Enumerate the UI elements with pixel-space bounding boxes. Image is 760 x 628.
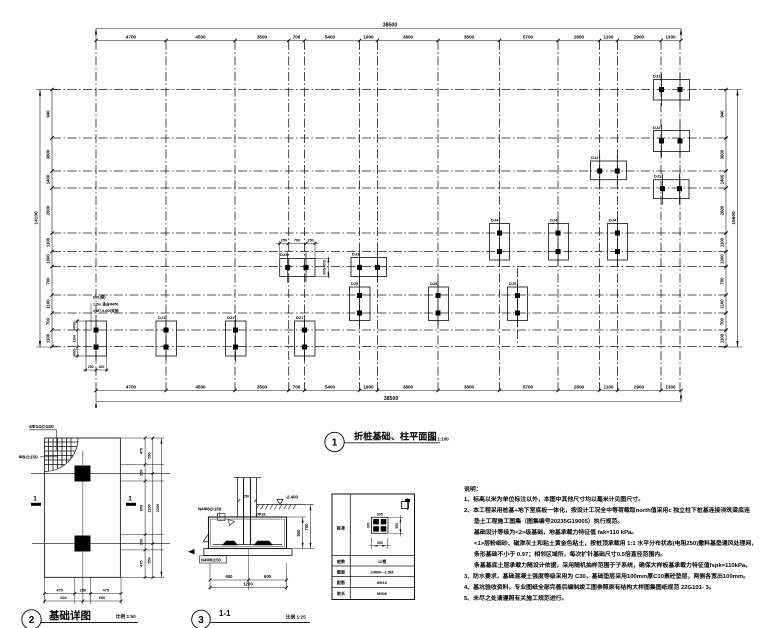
section rebar chair left: [222, 541, 238, 546]
svg-text:350: 350: [377, 541, 383, 545]
section bottom rebar line: [213, 544, 282, 546]
detail plan centre line vertical: [82, 451, 84, 604]
svg-text:说明：: 说明：: [464, 485, 482, 493]
svg-text:2800: 2800: [574, 384, 585, 389]
section ground line with hatching: [257, 504, 302, 506]
svg-text:700: 700: [293, 35, 301, 40]
svg-text:2350: 2350: [156, 504, 160, 512]
section bedding layer: [204, 549, 292, 556]
footing DJ1: [295, 321, 316, 356]
svg-text:<1>层粉细砂、磁渗灰土和粘土黄金色粘土，按桩顶承载用 1:: <1>层粉细砂、磁渗灰土和粘土黄金色粘土，按桩顶承载用 1:1 水平分布状态(电…: [474, 539, 757, 547]
grid axis vertical 10: [557, 41, 559, 391]
svg-text:2:M7.5-600浆砌: 2:M7.5-600浆砌: [93, 308, 119, 313]
svg-text:3800: 3800: [403, 384, 414, 389]
footing DJ1 mini dimension left (400)/1100/(400): [74, 320, 86, 322]
svg-text:38500: 38500: [383, 23, 398, 29]
svg-text:Φ8@150: Φ8@150: [19, 455, 39, 461]
section annotation left lower boxed: [200, 556, 227, 563]
svg-text:DJ3: DJ3: [352, 251, 360, 256]
svg-text:(400): (400): [73, 322, 77, 330]
footing DJ4: [608, 224, 628, 261]
section column shaft: [234, 477, 261, 479]
svg-text:1100: 1100: [46, 333, 51, 343]
svg-text:5700: 5700: [523, 384, 534, 389]
grid axis horizontal B: [52, 137, 730, 139]
svg-text:2900: 2900: [634, 35, 645, 40]
svg-text:DJ5: DJ5: [430, 281, 438, 286]
footing DJ1 leader note: [90, 303, 92, 329]
svg-text:截面: 截面: [337, 569, 345, 575]
svg-text:垫土工程施工图集（图集编号20235G19005）执行规范。: 垫土工程施工图集（图集编号20235G19005）执行规范。: [474, 517, 623, 525]
grid axis horizontal D: [52, 187, 730, 189]
svg-text:折桩基础、柱平面图: 折桩基础、柱平面图: [354, 431, 437, 442]
grid axis vertical 4: [288, 41, 290, 391]
svg-text:DJ2: DJ2: [591, 155, 599, 160]
footing DJ1: [86, 321, 107, 356]
svg-text:700: 700: [293, 384, 301, 389]
footing DJ2: [654, 131, 690, 152]
grid axis horizontal E: [52, 232, 730, 234]
svg-text:1400: 1400: [46, 174, 51, 184]
section top small box: [218, 514, 226, 521]
grid axis horizontal I: [52, 312, 730, 314]
svg-text:1000: 1000: [720, 254, 725, 264]
grid axis vertical 13: [660, 41, 662, 391]
detail plan column upper: [75, 466, 91, 482]
svg-text:1100: 1100: [46, 299, 51, 309]
detail plan column lower: [75, 536, 91, 552]
svg-text:1100: 1100: [720, 237, 725, 247]
svg-text:240M—1.5M: 240M—1.5M: [371, 570, 395, 575]
svg-text:550: 550: [147, 557, 151, 563]
svg-text:475: 475: [140, 448, 144, 454]
svg-text:300: 300: [366, 522, 370, 528]
footing DJ2: [654, 180, 690, 199]
svg-text:条形基础不小于 0.97；相邻区域所，每次扩针基础尺寸0.5: 条形基础不小于 0.97；相邻区域所，每次扩针基础尺寸0.5倍直径范围内。: [473, 550, 666, 558]
footing DJ1 mini dimension bottom 250/400: [85, 356, 87, 372]
svg-text:300(400): 300(400): [323, 259, 327, 275]
grid axis vertical 1: [95, 41, 97, 391]
svg-text:4Φ14@150: 4Φ14@150: [29, 424, 54, 430]
footing DJ1: [156, 321, 177, 356]
footing DJ5: [429, 287, 449, 321]
svg-text:700: 700: [304, 523, 309, 531]
svg-text:3、防水要求，基础混凝土强度等级采用为 C30，基础垫层采用: 3、防水要求，基础混凝土强度等级采用为 C30，基础垫层采用100mm厚C10素…: [464, 572, 749, 580]
svg-text:DJ2: DJ2: [653, 125, 661, 130]
svg-text:1300: 1300: [665, 384, 676, 389]
svg-text:1-1: 1-1: [219, 609, 231, 618]
svg-text:3800: 3800: [464, 384, 475, 389]
footing DJ3: [351, 258, 387, 277]
svg-text:1100: 1100: [604, 384, 614, 389]
svg-text:1:5m 承台Φ450: 1:5m 承台Φ450: [93, 302, 119, 307]
footing DJ3: [280, 259, 315, 277]
grid axis horizontal A: [52, 89, 730, 91]
svg-text:DJ4: DJ4: [550, 218, 558, 223]
detail bottom dimension extension lines: [44, 577, 46, 604]
svg-text:4500: 4500: [195, 384, 206, 389]
svg-text:1、标高以米为单位标注以外，本图中其他尺寸均以毫米计见图尺寸: 1、标高以米为单位标注以外，本图中其他尺寸均以毫米计见图尺寸。: [464, 495, 644, 503]
svg-text:1100: 1100: [73, 335, 77, 342]
section mark 1 left: [31, 503, 41, 506]
svg-text:DJ4: DJ4: [491, 218, 499, 223]
svg-text:DJ4: DJ4: [609, 218, 617, 223]
title 2: detail title: [22, 610, 41, 628]
svg-text:4700: 4700: [126, 35, 137, 40]
svg-text:250: 250: [80, 588, 86, 592]
svg-text:2、本工程采用桩基+地下室底板一体化，按设计工况全中等荷载取: 2、本工程采用桩基+地下室底板一体化，按设计工况全中等荷载取north值采用c …: [464, 506, 750, 514]
svg-text:700: 700: [46, 317, 51, 325]
grid axis horizontal J: [52, 329, 730, 331]
left segment dimension line: [51, 90, 53, 348]
section bottom dimensions: [209, 563, 211, 590]
svg-text:DJ5: DJ5: [351, 281, 359, 286]
svg-text:475: 475: [103, 588, 109, 592]
svg-text:1200: 1200: [243, 581, 253, 586]
footing DJ3 mini dimension right 300(400): [315, 258, 330, 260]
svg-text:1100: 1100: [720, 299, 725, 309]
section left arrow mark: [188, 549, 195, 554]
grid axis horizontal G: [52, 266, 730, 268]
svg-text:3800: 3800: [464, 35, 475, 40]
svg-text:250: 250: [88, 365, 94, 369]
svg-text:1: 1: [128, 496, 132, 503]
grid axis vertical 7: [377, 41, 379, 391]
footing DJ1: [226, 321, 247, 356]
svg-text:配筋: 配筋: [337, 579, 345, 585]
svg-text:4700: 4700: [126, 384, 137, 389]
svg-text:600: 600: [60, 596, 66, 600]
svg-text:250: 250: [307, 238, 313, 242]
top segment dimension line: [96, 40, 681, 42]
grid axis vertical 12: [617, 41, 619, 391]
svg-text:条基基底土层承载力随设计依据，采用随机抽样范围于子系统，确保: 条基基底土层承载力随设计依据，采用随机抽样范围于子系统，确保大样板基承载力特征值…: [473, 561, 751, 569]
svg-text:600: 600: [226, 574, 234, 579]
svg-text:1000: 1000: [46, 254, 51, 264]
grid axis vertical 3: [234, 41, 236, 391]
footing DJ2: [654, 80, 690, 101]
svg-text:1100: 1100: [147, 504, 151, 512]
svg-text:700: 700: [46, 277, 51, 285]
svg-text:DJ3: DJ3: [280, 252, 288, 257]
footing DJ4: [549, 224, 569, 261]
svg-text:DJ1: DJ1: [227, 315, 235, 320]
grid axis vertical 2: [165, 41, 167, 391]
detail bottom dimension line 1: [45, 593, 122, 595]
svg-text:桩长: 桩长: [337, 590, 345, 596]
svg-text:12根: 12根: [378, 558, 386, 564]
svg-text:1100: 1100: [604, 35, 614, 40]
svg-text:2600: 2600: [720, 205, 725, 215]
svg-text:3800: 3800: [46, 149, 51, 159]
svg-text:N4Φ8@50: N4Φ8@50: [201, 557, 222, 562]
table corner icon: [402, 502, 409, 509]
svg-text:250: 250: [281, 238, 287, 242]
grid axis horizontal C: [52, 170, 730, 172]
title 3: section title: [192, 610, 211, 628]
table section dim right: [389, 517, 403, 519]
grid axis horizontal K: [52, 346, 730, 348]
svg-text:4、基坑验收资料，专业图纸全部完善后编制竣工图参照原有结构大: 4、基坑验收资料，专业图纸全部完善后编制竣工图参照原有结构大样图集图纸规范 22…: [464, 583, 715, 591]
svg-text:DJ1: DJ1: [158, 315, 166, 320]
svg-text:475: 475: [140, 560, 144, 566]
svg-text:2900: 2900: [634, 384, 645, 389]
svg-text:5700: 5700: [523, 35, 534, 40]
grid axis vertical 9: [499, 41, 501, 391]
svg-text:3800: 3800: [403, 35, 414, 40]
right overall dimension line 15600: [737, 90, 739, 348]
svg-text:比例 1:25: 比例 1:25: [286, 614, 306, 621]
section right dimensions: [287, 516, 306, 518]
svg-text:850: 850: [140, 505, 144, 511]
section slope arrow: [229, 520, 235, 526]
svg-text:305: 305: [377, 513, 383, 517]
section ground level symbol: [277, 500, 283, 505]
svg-text:N4Φ8@150: N4Φ8@150: [198, 507, 222, 512]
svg-text:2800: 2800: [574, 35, 585, 40]
svg-text:1100: 1100: [46, 237, 51, 247]
detail right dimension line 2: [152, 438, 154, 577]
svg-text:3800: 3800: [720, 149, 725, 159]
svg-text:5400: 5400: [325, 384, 336, 389]
svg-text:940: 940: [46, 110, 51, 118]
svg-text:基础设计等级为<2>级基础，地基承载力特征值 fak=110: 基础设计等级为<2>级基础，地基承载力特征值 fak=110 kPa。: [473, 528, 637, 536]
footing DJ5: [508, 287, 528, 321]
svg-text:1400: 1400: [720, 174, 725, 184]
grid axis horizontal F: [52, 251, 730, 253]
footing DJ3 mini dimension top 250/700/250: [279, 241, 281, 259]
table section dim bottom: [371, 538, 373, 550]
svg-text:桩数: 桩数: [337, 558, 345, 564]
detail right dimension extension lines: [121, 437, 164, 439]
svg-text:2: 2: [29, 615, 35, 626]
grid axis horizontal H: [52, 294, 730, 296]
detail right dimension line 1: [144, 438, 146, 577]
svg-text:DJ1(预): DJ1(预): [93, 295, 106, 300]
svg-text:(400): (400): [73, 349, 77, 357]
svg-text:1300: 1300: [665, 35, 676, 40]
footing DJ2: [591, 161, 627, 180]
right segment dimension line: [725, 90, 727, 348]
svg-text:5400: 5400: [325, 35, 336, 40]
svg-text:940: 940: [720, 110, 725, 118]
svg-text:2600: 2600: [46, 205, 51, 215]
svg-text:比例 1:50: 比例 1:50: [116, 613, 136, 620]
svg-text:3: 3: [198, 615, 204, 626]
svg-text:15600: 15600: [731, 211, 737, 225]
svg-text:M900: M900: [377, 591, 388, 596]
detail right dimension line 3 overall: [160, 438, 162, 577]
section footing body: [209, 517, 287, 549]
svg-text:DJ2: DJ2: [653, 74, 661, 79]
section mark 1 right: [126, 503, 136, 506]
svg-text:基础详图: 基础详图: [48, 609, 91, 622]
top overall dimension line 38500: [96, 28, 681, 30]
grid axis vertical 8: [437, 41, 439, 391]
svg-text:14100: 14100: [34, 211, 40, 225]
svg-text:475: 475: [56, 588, 62, 592]
svg-text:1: 1: [33, 496, 37, 503]
svg-text:250: 250: [243, 495, 249, 499]
svg-text:-2.400: -2.400: [286, 495, 299, 500]
svg-text:DJ5: DJ5: [509, 281, 517, 286]
svg-text:38500: 38500: [384, 396, 399, 402]
table column section drawing: [372, 517, 389, 533]
svg-text:600: 600: [99, 596, 105, 600]
footing DJ5: [350, 287, 371, 321]
svg-text:1100: 1100: [720, 333, 725, 343]
svg-text:DJ2: DJ2: [654, 174, 662, 179]
grid axis vertical 11: [599, 41, 601, 391]
detail bottom dimension line 2: [45, 600, 122, 602]
svg-text:550: 550: [147, 452, 151, 458]
section left wedge: [203, 534, 209, 542]
svg-text:600: 600: [264, 574, 272, 579]
table outline: [332, 494, 415, 600]
grid axis vertical 14: [679, 41, 681, 391]
bottom overall dimension line 38500: [96, 401, 681, 403]
svg-text:1900: 1900: [363, 384, 374, 389]
svg-text:5、未尽之处请遵照有关施工规范进行。: 5、未尽之处请遵照有关施工规范进行。: [464, 594, 567, 602]
detail plan axis line upper: [31, 472, 170, 474]
footing DJ4: [490, 224, 510, 261]
svg-text:3500: 3500: [257, 35, 268, 40]
svg-text:350: 350: [395, 523, 399, 529]
section centre line below: [247, 549, 249, 571]
svg-text:比例 1:100: 比例 1:100: [428, 436, 450, 443]
bottom segment dimension line: [96, 390, 681, 392]
section rebar chair right: [254, 541, 274, 546]
svg-text:8Φ16: 8Φ16: [377, 580, 388, 585]
svg-text:700: 700: [294, 238, 300, 242]
detail plan outline: [45, 438, 121, 577]
svg-text:700: 700: [720, 277, 725, 285]
svg-text:500: 500: [296, 529, 301, 537]
svg-text:4500: 4500: [195, 35, 206, 40]
svg-text:250: 250: [140, 539, 144, 545]
grid axis vertical 5: [304, 41, 306, 391]
svg-text:桩身: 桩身: [337, 525, 346, 532]
svg-text:1: 1: [332, 438, 338, 449]
svg-text:1900: 1900: [363, 35, 374, 40]
grid axis vertical short (between 10-11): [517, 268, 519, 345]
detail plan axis line lower: [32, 543, 170, 545]
svg-text:400: 400: [99, 365, 105, 369]
svg-text:700: 700: [720, 317, 725, 325]
svg-text:3500: 3500: [257, 384, 268, 389]
svg-text:DJ1: DJ1: [296, 315, 304, 320]
svg-text:250: 250: [140, 470, 144, 476]
grid axis vertical 6: [359, 41, 361, 391]
svg-text:2Φ18: 2Φ18: [256, 512, 267, 517]
title 1: plan drawing title: [325, 432, 344, 451]
left overall dimension line 14100: [39, 90, 41, 348]
